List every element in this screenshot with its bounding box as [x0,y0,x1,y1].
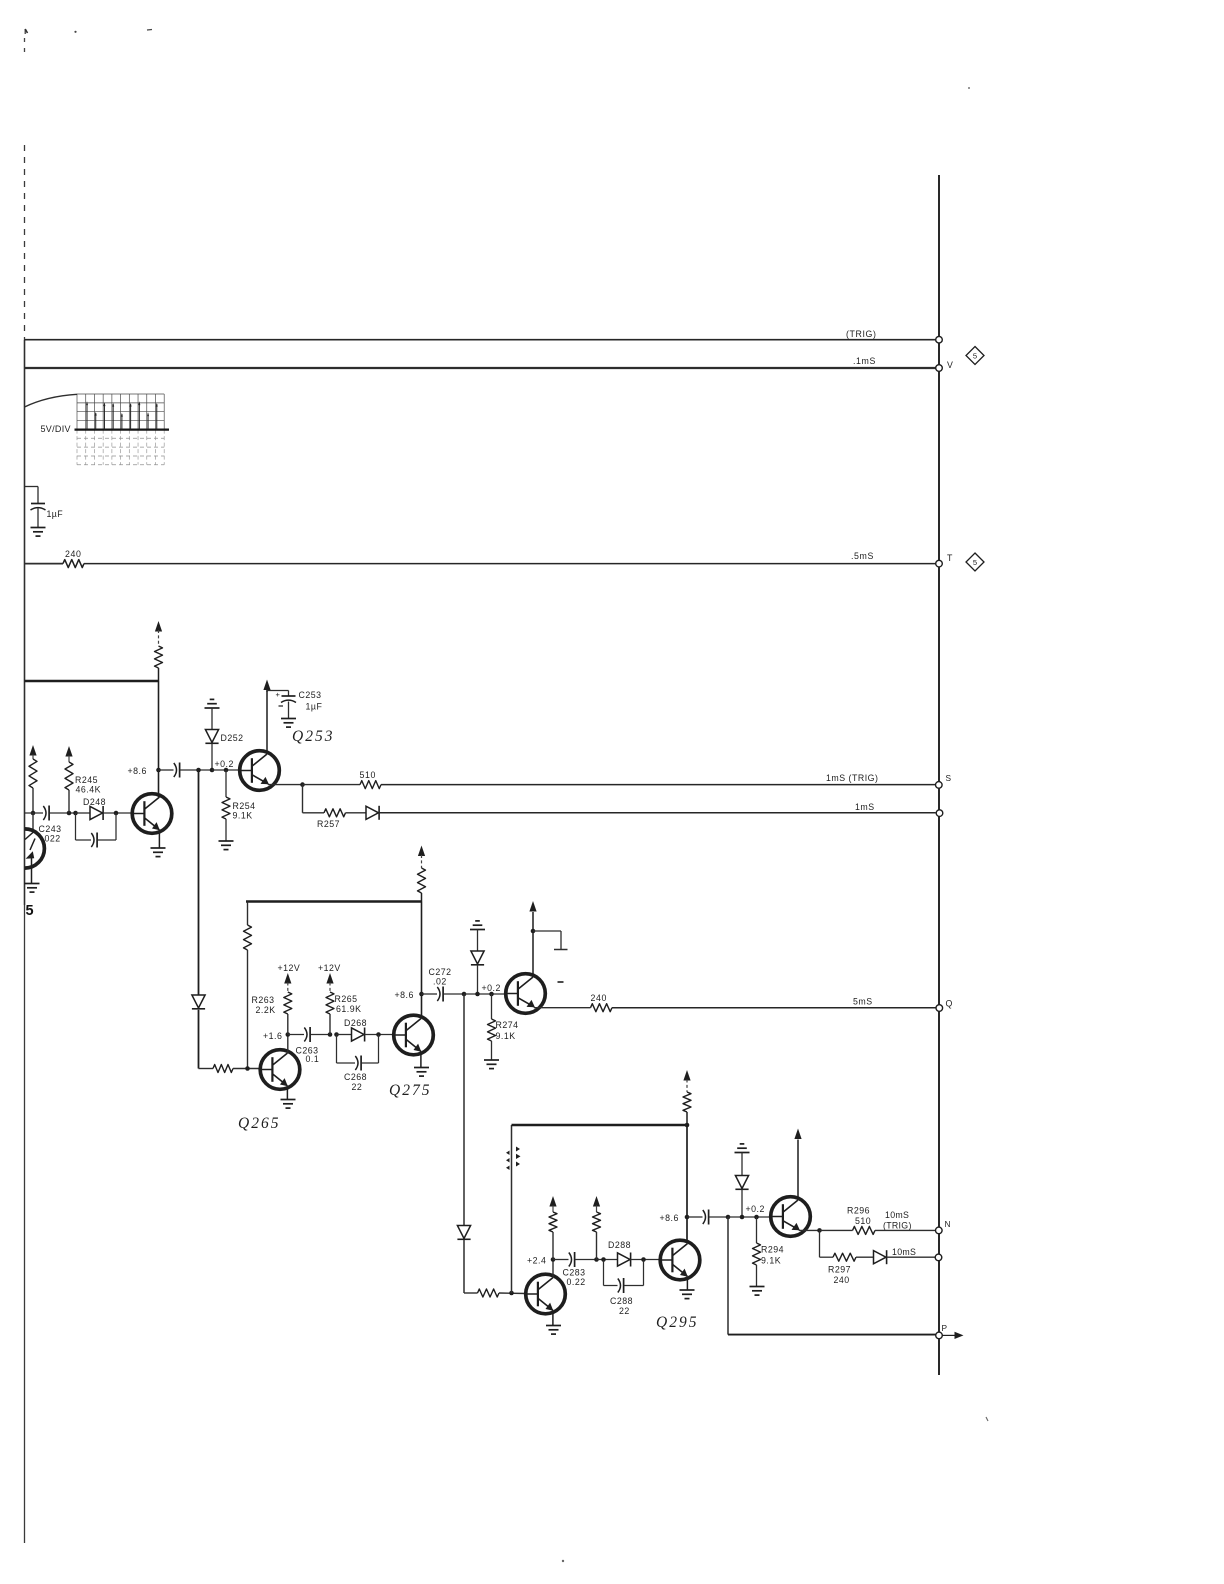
capacitor C253 1uF [267,690,296,718]
speck dash [147,29,152,32]
capacitor speedup (C244) [76,813,117,848]
speck near P [986,1417,988,1421]
wire supply bus stage2 [246,900,422,903]
wire (TRIG) .1mS line [25,339,936,341]
capacitor 1uF (left) [31,504,46,528]
svg-text:+: + [276,690,281,699]
arrow Q276 collector supply [529,901,536,912]
transistor Q265 [260,1050,300,1090]
label R296 510 [847,1206,871,1227]
label R297 240 [828,1265,851,1286]
svg-text:C272: C272 [429,967,452,977]
wire Q295 emitter [686,1277,688,1290]
label R263 2.2K [252,995,276,1015]
label R254 9.1K [233,801,256,821]
terminal 10mS [935,1254,942,1261]
speck right [968,87,970,89]
label V [947,360,953,370]
transistor Q253 [240,751,280,791]
connector diamond 5 (T) [966,553,984,571]
diode D272 (vertical) [471,930,484,995]
arrow Q253 collector supply [263,680,270,693]
label +8.6 (stage1) [128,766,147,776]
wire D252 to node [211,744,213,771]
label 5V/DIV [41,424,71,434]
svg-text:D288: D288 [608,1240,631,1250]
svg-text:D268: D268 [344,1018,367,1028]
terminal N [936,1227,943,1234]
resistor base Q283 [478,1289,500,1297]
resistor supply D288 [593,1196,601,1260]
svg-text:R254: R254 [233,801,256,811]
speck bottom middle [562,1560,564,1562]
wire entry curve to graticule [25,394,78,407]
resistor 240 (5mS) [591,1004,613,1012]
label 10mS (TRIG) [883,1210,912,1231]
wire Q243 collector stub [32,813,34,830]
svg-text:5: 5 [973,352,977,361]
svg-text:(TRIG): (TRIG) [883,1221,912,1231]
svg-text:Q: Q [946,999,953,1009]
svg-text:+8.6: +8.6 [660,1213,679,1223]
capacitor C243 [43,806,49,821]
node R296 R297 junction [817,1228,822,1233]
node collector stub [531,929,536,934]
resistor timing (left leg) [244,902,252,1069]
svg-text:Q275: Q275 [389,1082,431,1099]
label R265 61.9K [335,994,362,1014]
resistor R257 [303,809,346,817]
wire supply bus stage3 [512,1124,688,1127]
label D268 [344,1018,367,1028]
label Q [946,999,953,1009]
label .1mS [853,356,876,366]
wire 1mS line [379,812,936,814]
svg-text:5: 5 [973,558,977,567]
capacitor C288 22 [604,1260,644,1294]
node base net Q265 [245,1066,250,1071]
label minus [558,981,564,983]
graticule grid [77,394,164,465]
ground D252 (inverted) [205,699,220,708]
ground C253 [281,719,296,728]
ground 1uF [31,528,46,537]
label C243 .022 [39,824,62,844]
svg-text:510: 510 [855,1216,871,1226]
wire to R296 [820,1229,853,1231]
node +8.6 stage2 [419,992,424,997]
wire 1mS TRIG line [381,784,936,786]
wire Q248 emitter [158,830,160,848]
label Q253 [292,728,334,745]
ground Q283 [546,1326,561,1335]
capacitor C272 .02 [422,987,465,1002]
node R274 top [489,992,494,997]
arrow P output [943,1332,964,1339]
label C253 1uF [299,690,323,712]
transistor Q296 (10mS) [771,1197,811,1237]
terminal V [936,365,943,372]
node +2.4 [551,1257,556,1262]
wire P vertical [727,1217,729,1335]
label +0.2 (stage3) [746,1204,765,1214]
ground R254 [219,841,234,850]
wire P horizontal [728,1334,936,1336]
wire Q248 collector [158,681,160,797]
svg-text:240: 240 [834,1275,850,1285]
svg-text:D252: D252 [221,733,244,743]
page edge wire (left bus) [24,38,26,1543]
wire Q265 collector [287,1035,289,1054]
resistor R294 9.1K [753,1217,761,1286]
ground Q275 [414,1068,429,1077]
wire cap to vertical [180,769,212,771]
resistor supply Q275 [418,846,426,902]
label +12V (R263) [278,963,301,973]
svg-text:61.9K: 61.9K [336,1004,362,1014]
svg-text:9.1K: 9.1K [761,1256,781,1266]
wire stage1-to-stage2 vertical [198,770,200,995]
svg-text:.1mS: .1mS [853,356,876,366]
node vertical branch stage1 [196,768,201,773]
svg-text:R296: R296 [847,1206,870,1216]
label D252 [221,733,244,743]
diode D280 (vertical) [457,1226,470,1240]
wire down to R297 [819,1230,821,1257]
transistor Q283 [526,1274,566,1314]
svg-text:+1.6: +1.6 [263,1031,282,1041]
transistor Q275 [394,1015,434,1055]
svg-text:S: S [946,773,952,783]
wire Q265 emitter [286,1086,288,1099]
label 240 (5mS) [591,993,607,1003]
svg-text:Q265: Q265 [238,1115,280,1132]
transistor Q243 (page edge) [5,829,44,883]
wire D248 to Q248 base [103,812,132,814]
label 5mS [853,997,873,1007]
svg-text:T: T [947,553,953,563]
wire to Q265 base corner [199,1010,214,1069]
svg-text:C268: C268 [344,1072,367,1082]
node stage3 feed [462,992,467,997]
wire to Q283 base corner [464,1240,478,1293]
ground D272 (inverted) [470,921,485,930]
ground Q243 emitter [25,884,40,893]
svg-text:.02: .02 [433,977,447,987]
diode D248 [76,806,104,820]
node R245 bottom [67,811,78,816]
node base net Q283 [509,1291,514,1296]
svg-text:10mS: 10mS [885,1210,909,1220]
wire Q296 emitter [799,1229,820,1231]
label +8.6 (stage3) [660,1213,679,1223]
wire 10mS line [887,1256,935,1258]
label 1mS [855,802,875,812]
label +0.2 (stage2) [482,983,501,993]
wire Q253 emitter [268,784,303,786]
node bus corner [685,1123,690,1128]
waveform trace [75,428,170,430]
label +2.4 [527,1256,546,1266]
svg-text:+0.2: +0.2 [482,983,501,993]
diode D260 (vertical) [192,995,205,1009]
wire Q296 collector [797,1140,799,1201]
svg-text:Q295: Q295 [656,1314,698,1331]
svg-text:46.4K: 46.4K [76,785,102,795]
wire down to R257 [302,785,304,813]
svg-text:9.1K: 9.1K [496,1031,516,1041]
wire D288 to Q295 base [631,1259,661,1261]
svg-text:.022: .022 [42,834,61,844]
wire base line stage1 [25,812,44,814]
svg-text:R245: R245 [75,775,98,785]
wire stub bracket [533,931,568,950]
capacitor coupling stage1 [174,763,180,778]
connector diamond 5 (V) [966,347,984,365]
svg-text:D248: D248 [83,797,106,807]
label 1uF [47,509,64,519]
resistor R296 510 [853,1226,876,1234]
label R245 46.4K [75,775,101,795]
diode D268 [337,1028,365,1042]
svg-text:(TRIG): (TRIG) [846,329,876,339]
diode D288 [597,1253,631,1267]
label D288 [608,1240,631,1250]
label +1.6 [263,1031,282,1041]
label +12V (R265) [318,963,341,973]
node D252 [210,768,215,773]
wire to R254 and base [212,769,240,771]
svg-text:5mS: 5mS [853,997,873,1007]
label 5 (page edge) [26,903,34,919]
svg-text:+0.2: +0.2 [215,759,234,769]
wire to 1uF cap [25,487,39,504]
terminal V-line TRIG [936,336,943,343]
svg-text:R294: R294 [761,1245,784,1255]
wire +8.6 to cap [159,769,174,771]
node +8.6 stage3 [685,1215,690,1220]
svg-text:+12V: +12V [318,963,341,973]
diode D257 [346,806,380,820]
terminal T [936,560,943,567]
label S [946,773,952,783]
svg-text:C288: C288 [610,1296,633,1306]
resistor 240 (left) [63,560,84,568]
resistor collector load Q243 [29,745,37,813]
label .5mS [851,551,874,561]
label Q295 [656,1314,698,1331]
diode D252 [205,708,218,743]
label 1mS (TRIG) [826,773,878,783]
label Q265 [238,1115,280,1132]
svg-text:V: V [947,360,953,370]
ground Q295 [680,1290,695,1299]
svg-text:10mS: 10mS [892,1247,916,1257]
resistor supply Q283 [549,1196,557,1260]
label +8.6 (stage2) [395,990,414,1000]
svg-text:+8.6: +8.6 [395,990,414,1000]
waveform spikes [86,401,158,429]
label C263 0.1 [296,1046,320,1065]
svg-text:510: 510 [360,770,376,780]
resistor base Q265 [213,1065,233,1073]
svg-text:N: N [945,1219,952,1229]
svg-text:.5mS: .5mS [851,551,874,561]
resistor R297 240 [820,1253,857,1261]
wire 10mS TRIG line [875,1229,936,1231]
terminal P [936,1332,943,1339]
wire Q283 emitter [552,1311,554,1326]
wire .1mS line [25,367,936,369]
svg-text:22: 22 [352,1082,363,1092]
node D248 cathode [114,811,119,816]
svg-text:R265: R265 [335,994,358,1004]
capacitor C263 0.1 [288,1027,330,1042]
wire D268 to Q275 base [365,1034,394,1036]
resistor R245 46.4K [65,746,73,813]
resistor collector load Q248 [155,621,163,681]
resistor supply Q295 [683,1070,691,1125]
node D272 [475,992,480,997]
wire stage2-to-stage3 vertical [463,994,465,1226]
resistor 510 (1mS trig) [360,781,381,789]
svg-text:9.1K: 9.1K [233,811,253,821]
label Q275 [389,1082,431,1099]
svg-text:P: P [942,1323,948,1333]
svg-text:240: 240 [591,993,607,1003]
svg-text:+2.4: +2.4 [527,1256,546,1266]
svg-text:R263: R263 [252,995,275,1005]
label +0.2 (stage1) [215,759,234,769]
wire Q276 emitter to 240 [534,1007,591,1009]
svg-text:0.22: 0.22 [567,1277,586,1287]
transistor Q248 [132,794,172,834]
wire to D292 R294 base [728,1216,771,1218]
label 10mS [892,1247,916,1257]
node C243 junction [31,811,36,816]
wire vertical bus [938,175,940,1375]
wire Q275 emitter [420,1052,422,1068]
speck top-left [25,29,27,34]
svg-text:1mS (TRIG): 1mS (TRIG) [826,773,878,783]
label R294 9.1K [761,1245,784,1266]
node +1.6 [286,1032,291,1037]
wire Q275 collector riser [421,902,423,1019]
node C283 right [594,1257,599,1262]
label T [947,553,953,563]
label C283 0.22 [563,1268,586,1288]
ground Q265 [281,1100,296,1109]
svg-text:R297: R297 [828,1265,851,1275]
label D248 [83,797,106,807]
resistor R274 9.1K [488,994,496,1060]
svg-text:C243: C243 [39,824,62,834]
svg-text:Q253: Q253 [292,728,334,745]
node R265 bottom [328,1032,339,1037]
capacitor coupling stage3 [687,1210,728,1225]
node R254 top [224,768,229,773]
label 240 (left) [65,549,81,559]
diode D292 (vertical) [735,1153,748,1218]
node 510 junction [300,782,305,787]
svg-text:5: 5 [26,903,34,919]
ground R294 [750,1287,765,1296]
label 510 [360,770,376,780]
node D288 anode [601,1257,606,1262]
arrow Q296 collector supply [794,1129,801,1140]
node D292 [740,1215,745,1220]
wire Q295 collector riser [686,1125,688,1241]
wire C243 to D248 [50,812,76,814]
label R257 [317,819,340,829]
tick marks on crossover [506,1147,521,1171]
svg-text:R257: R257 [317,819,340,829]
capacitor C283 0.22 [553,1252,597,1267]
wire Q253 collector [266,691,268,753]
svg-text:+0.2: +0.2 [746,1204,765,1214]
wire Q276 collector [532,912,534,977]
transistor Q295 [660,1240,700,1280]
label (TRIG) [846,329,876,339]
svg-text:C283: C283 [563,1268,586,1278]
svg-text:+8.6: +8.6 [128,766,147,776]
label P [942,1323,948,1333]
terminal Q [936,1005,943,1012]
ground R274 [484,1060,499,1069]
svg-text:22: 22 [619,1306,630,1316]
svg-text:1µF: 1µF [47,509,64,519]
svg-text:240: 240 [65,549,81,559]
terminal S [936,782,943,789]
wire .5mS line left [25,563,64,565]
node P-feed [726,1215,731,1220]
terminal S2 [936,810,943,817]
node D288 cathode [641,1257,646,1262]
resistor R254 9.1K [222,770,230,841]
label R274 9.1K [496,1020,519,1041]
diode D297 [856,1250,887,1264]
svg-text:+12V: +12V [278,963,301,973]
transistor Q276 (5mS) [506,974,546,1014]
svg-text:R274: R274 [496,1020,519,1030]
wire crossover vertical [511,1125,513,1293]
resistor R265 61.9K [326,973,334,1035]
svg-text:5V/DIV: 5V/DIV [41,424,71,434]
wire resistor to base [233,1068,262,1070]
wire resistor to Q283 base [499,1292,526,1295]
node +8.6 stage1 [156,768,161,773]
resistor R263 2.2K [284,973,292,1035]
svg-text:1mS: 1mS [855,802,875,812]
label C272 .02 [429,967,452,987]
wire Q283 collector [552,1260,554,1278]
capacitor C268 22 [337,1035,379,1071]
speck dot [74,31,76,33]
ground Q248 [151,848,166,857]
wire to D272 and R274 [464,993,506,995]
wire supply bus stage1 [25,680,159,683]
ground D292 (inverted) [735,1144,750,1153]
svg-text:2.2K: 2.2K [256,1005,276,1015]
wire .5mS line [84,563,936,565]
wire to 510 [303,784,361,786]
svg-text:C253: C253 [299,690,322,700]
label N [945,1219,952,1229]
svg-text:0.1: 0.1 [306,1054,320,1064]
label C288 22 [610,1296,633,1316]
node R294 top [754,1215,759,1220]
label C268 22 [344,1072,367,1092]
